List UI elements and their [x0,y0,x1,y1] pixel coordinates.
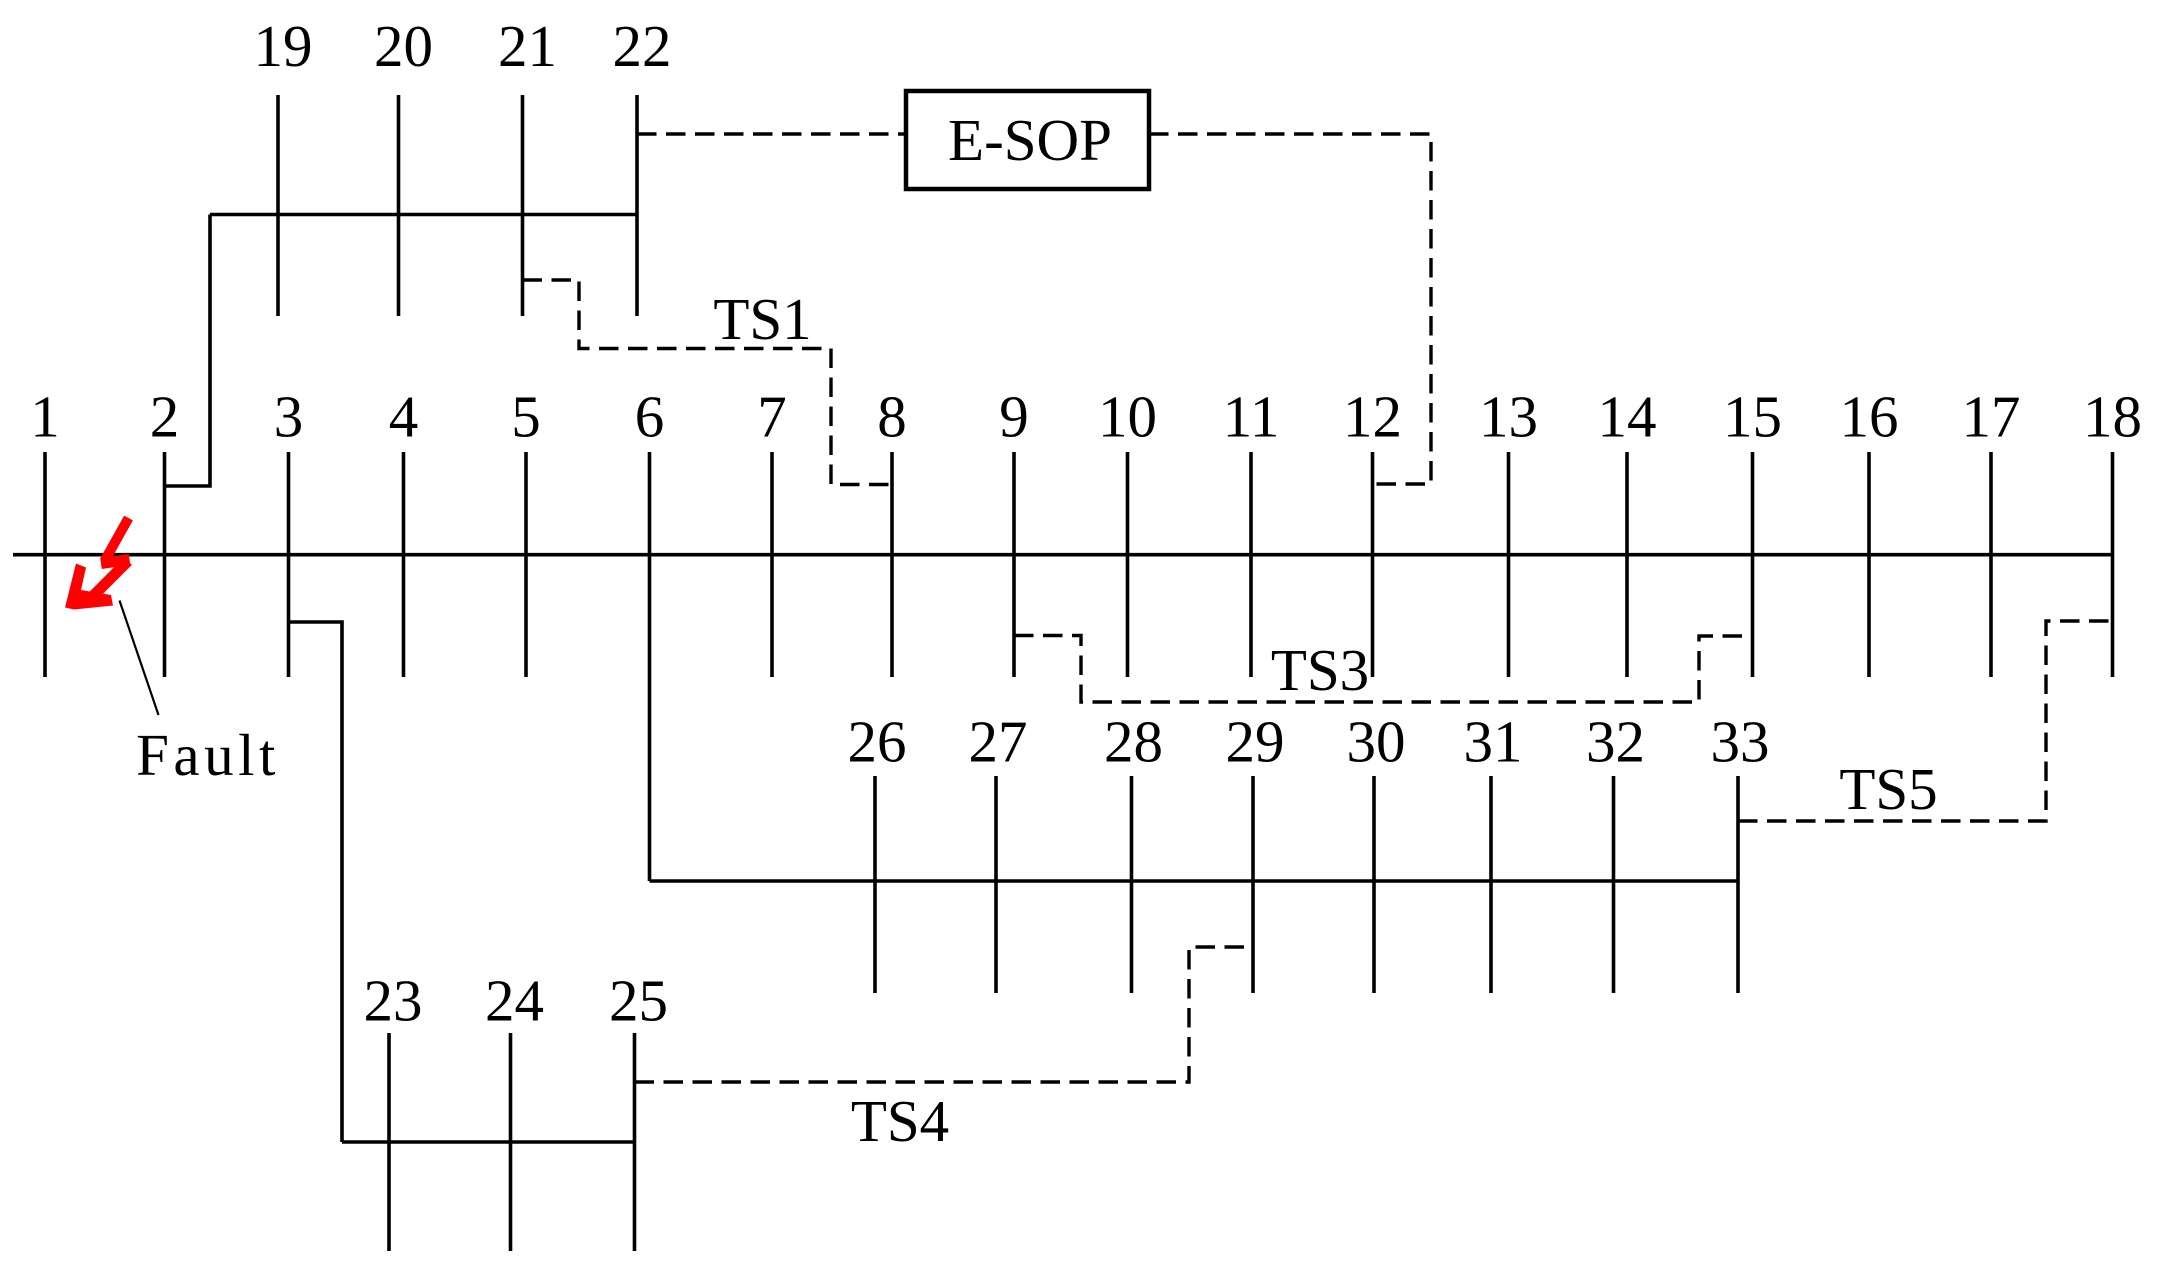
tie switch TS4 dashed link bus 25 to bus 29 [635,947,1254,1082]
node bus 16 tick [1867,452,1871,677]
wire main feeder bus1-bus18 [13,553,2114,557]
svg-text:13: 13 [1479,384,1538,450]
svg-text:14: 14 [1598,384,1657,450]
tie switch TS1 dashed link bus 21 to bus 8 [523,280,893,485]
svg-text:29: 29 [1226,709,1285,775]
svg-text:25: 25 [609,968,668,1034]
node bus 12 tick [1371,452,1375,677]
fault leader line [120,601,159,716]
svg-text:19: 19 [254,13,313,79]
node bus 22 tick [635,95,639,316]
tie switch TS5 dashed link bus 33 to bus 18 [1738,621,2113,821]
node bus 4 tick [402,452,406,677]
wire dashed bus 22 to E-SOP [637,132,906,135]
svg-text:31: 31 [1464,709,1523,775]
svg-text:15: 15 [1723,384,1782,450]
svg-text:22: 22 [613,13,672,79]
svg-text:TS3: TS3 [1271,637,1369,703]
node bus 6 tick (extends to branch 26-33) [648,452,652,881]
svg-text:1: 1 [30,384,60,450]
svg-text:21: 21 [498,13,557,79]
node bus 3 tick [287,452,291,677]
svg-text:24: 24 [485,968,544,1034]
node bus 5 tick [524,452,528,677]
node bus 20 tick [397,95,401,316]
svg-text:16: 16 [1840,384,1899,450]
svg-text:4: 4 [389,384,419,450]
node bus 10 tick [1126,452,1130,677]
node bus 29 tick [1251,776,1255,993]
node bus 14 tick [1625,452,1629,677]
wire branch line 26-33 [650,879,1739,883]
node bus 15 tick [1751,452,1755,677]
svg-text:TS1: TS1 [713,286,811,352]
svg-text:11: 11 [1223,384,1280,450]
svg-text:20: 20 [374,13,433,79]
svg-text:27: 27 [969,709,1028,775]
E-SOP box U1 [906,91,1149,189]
node bus 19 tick [276,95,280,316]
node bus 25 tick [633,1033,637,1251]
node bus 18 tick [2111,452,2115,677]
svg-text:17: 17 [1962,384,2021,450]
node bus 13 tick [1507,452,1511,677]
node bus 28 tick [1130,776,1134,993]
svg-text:TS4: TS4 [851,1088,949,1154]
node bus 1 tick [43,452,47,677]
svg-text:7: 7 [757,384,787,450]
wire bus 3 riser to branch 23-25 [289,622,343,1142]
node bus 30 tick [1372,776,1376,993]
node bus 26 tick [873,776,877,993]
node bus 27 tick [994,776,998,993]
svg-text:26: 26 [848,709,907,775]
svg-text:18: 18 [2083,384,2142,450]
node bus 7 tick [770,452,774,677]
svg-text:12: 12 [1343,384,1402,450]
node bus 24 tick [509,1033,513,1251]
tie switch TS3 dashed link bus 9 to bus 15 [1014,636,1753,703]
wire dashed E-SOP to bus 12 [1149,134,1431,484]
node bus 21 tick [521,95,525,316]
wire bus 2 riser to branch 19-22 [165,215,211,487]
wire branch line 23-25 [342,1140,635,1144]
svg-text:33: 33 [1711,709,1770,775]
svg-text:6: 6 [635,384,665,450]
fault arrow (red) between bus 1 and bus 2 [65,518,130,610]
svg-text:10: 10 [1098,384,1157,450]
svg-text:28: 28 [1104,709,1163,775]
svg-text:23: 23 [364,968,423,1034]
node bus 32 tick [1612,776,1616,993]
node bus 11 tick [1249,452,1253,677]
wire branch line 19-22 [210,213,637,217]
svg-text:8: 8 [877,384,907,450]
node bus 31 tick [1489,776,1493,993]
node bus 23 tick [387,1033,391,1251]
svg-text:9: 9 [999,384,1029,450]
svg-text:5: 5 [511,384,541,450]
svg-text:Fault: Fault [136,722,280,788]
svg-text:30: 30 [1347,709,1406,775]
node bus 9 tick [1012,452,1016,677]
svg-text:E-SOP: E-SOP [948,107,1112,173]
node bus 8 tick [890,452,894,677]
node bus 17 tick [1989,452,1993,677]
svg-text:3: 3 [274,384,304,450]
svg-text:2: 2 [150,384,180,450]
node bus 2 tick [163,452,167,677]
svg-text:TS5: TS5 [1839,756,1937,822]
node bus 33 tick [1736,776,1740,993]
svg-text:32: 32 [1586,709,1645,775]
